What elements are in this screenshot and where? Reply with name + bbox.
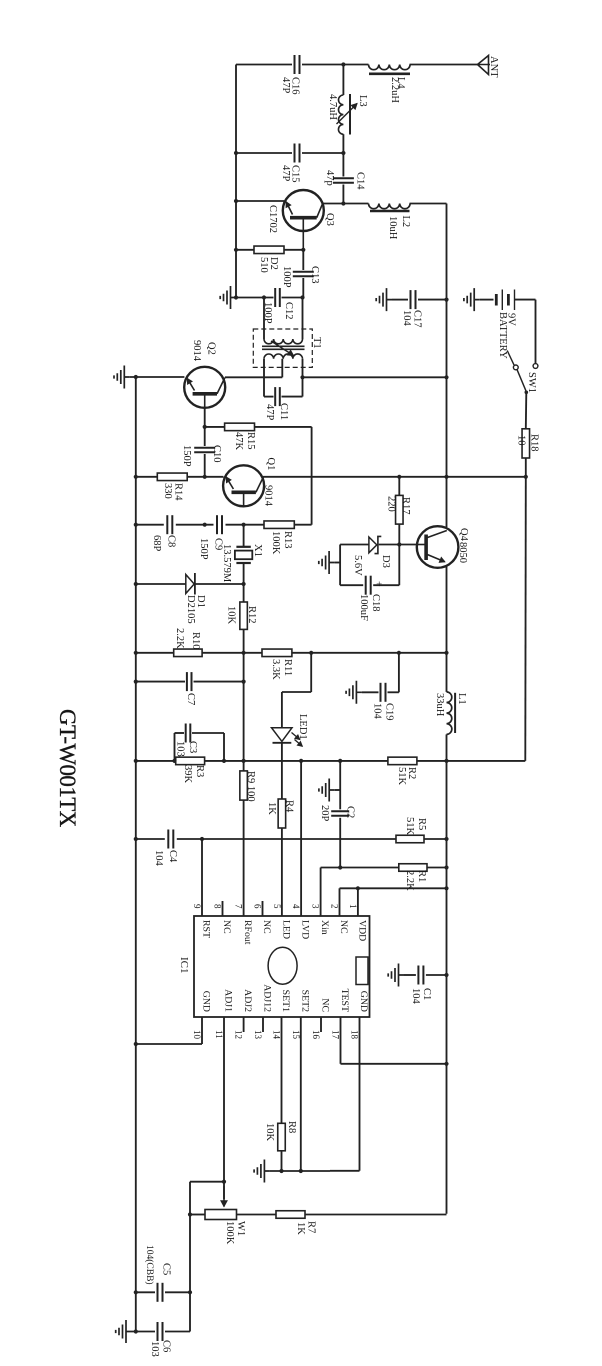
svg-text:C10: C10 — [211, 445, 222, 463]
resistor R18 (10) — [522, 429, 530, 458]
svg-text:C18: C18 — [370, 594, 381, 612]
capacitor C17 (104) — [392, 299, 408, 301]
node: supply/R17 — [397, 475, 401, 479]
node: row/left rail — [134, 759, 138, 763]
svg-text:SET1: SET1 — [280, 990, 291, 1012]
ground (R8/SET row) — [254, 1160, 270, 1183]
node: row/spine — [444, 759, 448, 763]
potentiometer W1 (100K) — [205, 1210, 237, 1220]
resistor R3 (39K) — [176, 757, 205, 765]
svg-text:10: 10 — [192, 1030, 202, 1040]
svg-text:220: 220 — [386, 496, 397, 512]
svg-text:8050: 8050 — [457, 542, 468, 563]
svg-text:R5: R5 — [416, 818, 427, 830]
inductor L2 — [369, 204, 411, 209]
pin 18 GND wire — [359, 1017, 361, 1171]
node: L3 top junction — [341, 62, 345, 66]
node: left vertical / C15 row — [234, 151, 238, 155]
svg-text:10K: 10K — [226, 606, 237, 625]
capacitor C18 (electrolytic 100uF) — [340, 584, 363, 586]
svg-text:RFout: RFout — [242, 920, 253, 945]
node: row/pin15 — [299, 1169, 303, 1173]
pin 10 GND wire to left rail — [201, 1017, 203, 1044]
svg-text:9: 9 — [192, 904, 202, 909]
svg-text:18: 18 — [350, 1030, 360, 1040]
svg-text:5.6V: 5.6V — [352, 555, 363, 576]
svg-text:+: + — [373, 581, 384, 587]
capacitor C11 — [264, 396, 274, 398]
svg-text:Q3: Q3 — [324, 213, 335, 226]
node: row/left rail — [134, 837, 138, 841]
svg-text:10: 10 — [516, 435, 527, 446]
wire C12 row y=297.5 — [236, 297, 274, 299]
wire W1 jog (wiper tie) — [190, 1181, 224, 1183]
svg-text:R7: R7 — [306, 1221, 317, 1233]
wire C8/C9 row y=524.7 — [136, 524, 164, 526]
inductor L3 (adjustable) — [342, 65, 344, 96]
node: T1 primary right / C13 bottom — [300, 295, 304, 299]
resistor R4 (1K) — [278, 799, 286, 828]
svg-text:TEST: TEST — [339, 989, 350, 1012]
transistor Q4 (8050) — [417, 526, 459, 568]
resistor R14 (330) — [157, 473, 187, 481]
node: supply/R18 — [524, 475, 528, 479]
node: row/spine — [444, 651, 448, 655]
svg-text:47P: 47P — [280, 77, 291, 94]
svg-text:13: 13 — [253, 1030, 263, 1040]
svg-text:C4: C4 — [167, 850, 178, 863]
capacitor C9 (150P) — [216, 515, 218, 534]
node: supply/spine — [444, 475, 448, 479]
svg-text:4.7uH: 4.7uH — [327, 94, 338, 120]
svg-text:9014: 9014 — [191, 340, 202, 362]
svg-text:C1: C1 — [421, 988, 432, 1000]
svg-text:LED1: LED1 — [297, 714, 308, 740]
svg-text:33uH: 33uH — [434, 693, 445, 717]
wire T1 secondary right to spine — [303, 376, 447, 378]
node: VDD row/spine — [444, 886, 448, 890]
svg-text:C11: C11 — [278, 403, 289, 420]
node: row/left rail — [134, 523, 138, 527]
svg-text:R3: R3 — [194, 765, 205, 777]
wire L2 to spine corner — [410, 203, 447, 205]
node: left vertical / D2 row — [234, 248, 238, 252]
wire T1 tap to Q2 collector y=377.3 — [225, 376, 282, 378]
wire R10/R11 row y=652.8 — [136, 652, 174, 654]
svg-text:SET2: SET2 — [299, 990, 310, 1012]
node: supply/Q2 base column — [203, 475, 207, 479]
node: TEST/spine — [444, 1062, 448, 1066]
svg-text:15: 15 — [291, 1030, 301, 1040]
svg-text:100K: 100K — [224, 1221, 235, 1245]
svg-text:8: 8 — [213, 904, 223, 909]
pin 9 wire RST — [201, 839, 203, 916]
T1 secondary winding — [264, 354, 303, 359]
svg-text:C14: C14 — [355, 172, 366, 190]
svg-text:1K: 1K — [295, 1222, 306, 1235]
wire C2 branch vertical — [339, 761, 341, 809]
battery ground — [464, 288, 480, 311]
node: C1/spine — [444, 973, 448, 977]
node: row/pin4 branch — [299, 759, 303, 763]
svg-text:68P: 68P — [151, 535, 162, 552]
svg-text:X1: X1 — [252, 544, 263, 557]
svg-text:10uH: 10uH — [387, 216, 398, 240]
svg-text:R17: R17 — [400, 497, 411, 515]
wire Xin row y=867.5 — [321, 867, 399, 869]
crystal X1 (13.579M) — [243, 525, 245, 547]
svg-text:47P: 47P — [280, 165, 291, 182]
ground (C17) — [376, 288, 392, 311]
svg-text:NC: NC — [338, 920, 349, 934]
svg-text:47K: 47K — [233, 432, 244, 451]
node: R15 / Q2 base column — [203, 425, 207, 429]
svg-text:103: 103 — [175, 741, 186, 757]
svg-text:C13: C13 — [309, 266, 320, 284]
T1 primary winding — [263, 298, 265, 340]
capacitor C10 — [204, 408, 206, 446]
node: T1 wire/spine — [444, 375, 448, 379]
svg-text:NC: NC — [261, 920, 272, 934]
wire W1 wiper from pin11 (arrow) — [223, 1186, 225, 1207]
node: left vertical / emitter row — [234, 199, 238, 203]
svg-text:VDD: VDD — [356, 920, 367, 941]
svg-text:14: 14 — [272, 1030, 282, 1040]
svg-text:L1: L1 — [456, 693, 467, 705]
capacitor C7 — [186, 672, 188, 691]
wire battery row — [480, 299, 494, 301]
svg-text:LVD: LVD — [300, 920, 311, 939]
ground (C1) — [388, 964, 404, 987]
resistor R11 (3.3K) — [262, 649, 292, 657]
capacitor C3 (103) across R3 — [174, 733, 176, 761]
node: Xin/C2 — [338, 865, 342, 869]
battery 9V (plates) — [495, 294, 498, 306]
transformer T1 (dashed box) — [253, 329, 312, 367]
svg-text:47p: 47p — [324, 170, 335, 186]
zener D3 (5.6V) — [369, 537, 377, 553]
node: C14 bottom junction — [341, 201, 345, 205]
svg-text:11: 11 — [214, 1030, 224, 1039]
IC1 notch rectangle — [356, 957, 368, 985]
spine vertical x=446.5 (L1 bottom to R7 row) — [446, 761, 448, 1214]
svg-text:47P: 47P — [264, 404, 275, 421]
pin 14 SET1 wire + resistor R8 (10K) — [281, 1017, 283, 1123]
svg-text:R15: R15 — [245, 432, 256, 450]
ground (bottom left) — [116, 1320, 132, 1343]
svg-text:39K: 39K — [182, 765, 193, 784]
node: Q3 base / D2 junction — [301, 248, 305, 252]
resistor R2 (51K) — [388, 757, 417, 765]
svg-text:150P: 150P — [198, 538, 209, 560]
svg-text:1K: 1K — [266, 802, 277, 815]
resistor R1 (2.2K) — [399, 864, 427, 872]
svg-text:104: 104 — [410, 988, 421, 1005]
svg-text:20P: 20P — [319, 805, 330, 822]
svg-text:10K: 10K — [264, 1123, 275, 1142]
svg-text:R1: R1 — [416, 870, 427, 882]
IC1 box — [194, 916, 370, 1017]
svg-text:C2: C2 — [345, 806, 356, 818]
wire LED to R4 — [281, 743, 283, 799]
svg-text:104: 104 — [372, 703, 383, 720]
svg-text:100uF: 100uF — [358, 594, 369, 621]
svg-text:104: 104 — [401, 310, 412, 327]
ground (C19) — [346, 681, 362, 704]
wire Q3 emitter y=201 — [236, 200, 284, 202]
svg-text:104(CBB): 104(CBB) — [144, 1245, 155, 1285]
node: C17/spine — [444, 298, 448, 302]
transistor Q3 (C1702) — [283, 190, 324, 231]
ground (D3/C18) — [319, 551, 335, 574]
node: Xin row/spine — [444, 865, 448, 869]
inductor L1 (33uH) — [446, 653, 448, 692]
svg-text:4: 4 — [291, 904, 301, 909]
wire supply row y=476.8 — [136, 476, 158, 478]
svg-text:R14: R14 — [173, 483, 184, 501]
svg-text:C5: C5 — [161, 1263, 172, 1275]
LED1 — [272, 728, 293, 742]
inductor L4 — [369, 65, 411, 70]
node: row/pin9 RST — [200, 837, 204, 841]
antenna ANT — [478, 56, 491, 75]
switch SW1 — [533, 364, 538, 369]
svg-text:R10: R10 — [190, 632, 201, 650]
ground (C12 row) — [220, 286, 236, 309]
svg-text:6: 6 — [253, 904, 263, 909]
capacitor C16 — [294, 55, 296, 74]
svg-text:NC: NC — [221, 920, 232, 934]
capacitor C14 — [342, 153, 344, 177]
svg-text:R4: R4 — [284, 800, 295, 813]
svg-text:ADJ1: ADJ1 — [223, 989, 234, 1012]
diode D1 (D2105) — [136, 583, 186, 585]
svg-text:C7: C7 — [185, 693, 196, 705]
node: row/left rail — [134, 651, 138, 655]
node: left rail / emitter row — [134, 375, 138, 379]
capacitor C1 (104) — [404, 974, 416, 976]
svg-text:BATTERY: BATTERY — [497, 312, 508, 359]
ground (C2 branch) — [319, 779, 335, 802]
node: row/R9 column — [242, 759, 246, 763]
resistor R5 (51K) — [396, 835, 424, 843]
svg-text:ADJ2: ADJ2 — [242, 989, 253, 1012]
svg-text:ANT: ANT — [488, 56, 499, 78]
svg-text:RST: RST — [201, 920, 212, 938]
capacitor C5 (104CBB) — [157, 1283, 159, 1302]
resistor R9 (100) — [243, 761, 245, 771]
svg-text:Q2: Q2 — [206, 342, 217, 355]
capacitor C19 (104) — [362, 691, 379, 693]
wire D3 left vertical — [339, 545, 341, 586]
node: row/C19 branch — [397, 651, 401, 655]
svg-text:100P: 100P — [281, 266, 292, 288]
wire Q4 emitter — [446, 567, 448, 653]
svg-text:Xin: Xin — [319, 920, 330, 935]
wire Q3 collector to L2 — [322, 203, 368, 205]
svg-text:16: 16 — [311, 1030, 321, 1040]
right rail (R18 junction down to ground row) — [524, 477, 527, 761]
svg-text:2.2K: 2.2K — [174, 628, 185, 649]
node: D1 row/left rail — [134, 582, 138, 586]
spine vertical x=446.5 (C17 row to supply row) — [446, 300, 448, 477]
IC1 dimple — [268, 947, 297, 984]
node: supply/left rail — [134, 475, 138, 479]
svg-text:GND: GND — [201, 991, 212, 1012]
wire battery to SW1 — [535, 300, 537, 364]
capacitor C2 (20P) — [331, 810, 349, 812]
svg-text:R8: R8 — [286, 1121, 297, 1133]
pin 15 SET2 wire — [300, 1017, 302, 1171]
svg-text:2: 2 — [330, 904, 340, 909]
capacitor C12 — [274, 288, 276, 307]
wire Q4 base row y=544.5 — [340, 544, 369, 546]
IC1 pin stubs bottom (12,13,16 NC) — [243, 1017, 245, 1032]
node: base/R17 — [397, 542, 401, 546]
svg-text:R9 100: R9 100 — [245, 771, 256, 802]
svg-text:NC: NC — [320, 998, 331, 1012]
wire ANT feed (top rail y=64.5) — [236, 64, 292, 66]
svg-text:C3: C3 — [187, 741, 198, 753]
svg-text:R18: R18 — [529, 434, 540, 452]
capacitor C8 (68P) — [166, 515, 168, 534]
svg-text:GT-W001TX: GT-W001TX — [55, 709, 80, 828]
svg-text:C1702: C1702 — [267, 205, 278, 233]
node: row/Q1 base — [242, 523, 246, 527]
IC1 pin stubs top (8,6 NC) — [222, 901, 224, 916]
left rail top vertical x=236 — [235, 65, 237, 298]
wire pin4 branch (LVD) — [300, 761, 302, 916]
node: row/C2-gnd branch — [338, 759, 342, 763]
transistor Q1 (9014) — [223, 465, 264, 506]
svg-text:SW1: SW1 — [526, 372, 537, 393]
T1 adjust arrow — [271, 341, 294, 356]
T1 core — [262, 345, 305, 347]
node: row/R8 — [279, 1169, 283, 1173]
transistor Q2 (9014) — [184, 367, 225, 408]
resistor R15 (47K) — [205, 426, 225, 428]
wire C18 right vertical — [398, 545, 400, 586]
svg-text:12: 12 — [234, 1030, 244, 1039]
capacitor C15 — [294, 144, 296, 163]
pin 11 ADJ1 wire to W1 wiper — [223, 1017, 225, 1199]
svg-text:1: 1 — [348, 904, 358, 909]
wire R15/R13 vertical x=311.6 — [311, 427, 313, 525]
svg-text:R11: R11 — [282, 659, 293, 676]
node: row/R12 bottom — [242, 651, 246, 655]
capacitor C13 — [302, 250, 304, 270]
svg-text:W1: W1 — [235, 1221, 246, 1236]
node: D1/X1/R12 — [242, 582, 246, 586]
svg-text:R12: R12 — [246, 606, 257, 624]
svg-text:C8: C8 — [166, 535, 177, 547]
resistor R12 (10K) — [243, 584, 245, 602]
wire LED branch jog — [310, 653, 312, 692]
capacitor C6 (103) — [157, 1322, 159, 1341]
node: row/Q2 base column — [203, 523, 207, 527]
svg-text:7: 7 — [234, 904, 244, 909]
svg-text:51K: 51K — [404, 817, 415, 836]
resistor R10 (2.2K) — [174, 649, 202, 657]
node: row/LED branch — [309, 651, 313, 655]
wire R4 to IC pin 5 (LED) — [281, 828, 283, 916]
svg-text:150P: 150P — [181, 445, 192, 467]
svg-text:330: 330 — [162, 483, 173, 499]
node: row/spine — [444, 837, 448, 841]
svg-text:3: 3 — [311, 904, 321, 909]
wire Q1-base column through C7 row — [243, 653, 245, 682]
svg-text:2.2uH: 2.2uH — [389, 77, 400, 103]
svg-text:5: 5 — [272, 904, 282, 909]
svg-text:13.579M: 13.579M — [221, 544, 232, 583]
svg-text:103: 103 — [149, 1341, 160, 1357]
svg-text:R13: R13 — [282, 531, 293, 549]
svg-text:Q1: Q1 — [265, 458, 276, 471]
resistor R7 (1K) — [276, 1211, 305, 1219]
wire VDD row y=888.3 — [340, 887, 447, 889]
wire C6 row y=1331.5 — [132, 1331, 156, 1333]
svg-text:L2: L2 — [400, 216, 411, 228]
pin 17 TEST wire to spine — [340, 1017, 342, 1064]
wire Q4 collector — [446, 477, 448, 527]
svg-text:Q4: Q4 — [458, 528, 469, 542]
svg-text:C6: C6 — [161, 1340, 172, 1352]
svg-text:IC1: IC1 — [178, 957, 190, 974]
svg-text:510: 510 — [258, 257, 269, 273]
wire SW1 to R18 — [525, 392, 528, 429]
wire ground row y=760.9 — [136, 760, 176, 762]
svg-text:L3: L3 — [357, 95, 368, 107]
svg-text:LED: LED — [280, 920, 291, 939]
svg-text:C17: C17 — [412, 310, 423, 328]
ground (Q2 emitter) — [114, 366, 130, 389]
svg-text:D3: D3 — [380, 555, 391, 568]
wire C4/R5 row y=839 — [136, 838, 165, 840]
capacitor C4 (104) — [167, 830, 169, 849]
wire Q2 emitter row — [130, 376, 185, 378]
node: secondary right / C11 — [300, 375, 304, 379]
svg-text:100K: 100K — [270, 531, 281, 555]
wire pin1 VDD stub — [357, 888, 359, 916]
svg-text:9014: 9014 — [263, 485, 274, 507]
wire left vert x=190 to C6 row — [189, 1292, 191, 1331]
left rail x=135.8 — [135, 377, 137, 1332]
resistor R13 (100K) — [244, 524, 264, 526]
resistor D2 (510) — [236, 249, 254, 251]
svg-text:17: 17 — [331, 1030, 341, 1040]
wire C15 row y=153 — [236, 152, 292, 154]
resistor R17 (220) — [398, 477, 400, 496]
svg-text:T1: T1 — [311, 337, 322, 349]
svg-text:3.3K: 3.3K — [270, 659, 281, 680]
wire C5 row y=1292.3 — [136, 1291, 155, 1293]
svg-text:C19: C19 — [384, 703, 395, 721]
svg-text:51K: 51K — [396, 767, 407, 786]
svg-text:C12: C12 — [283, 302, 294, 320]
wire ground row y=1171 — [270, 1170, 330, 1172]
svg-text:D2105: D2105 — [185, 595, 196, 624]
wire C7 row y=681.6 — [136, 681, 185, 683]
svg-text:GND: GND — [358, 991, 369, 1012]
svg-text:104: 104 — [153, 850, 164, 867]
node: T1 primary left — [262, 295, 266, 299]
svg-text:ADJ12: ADJ12 — [262, 984, 273, 1012]
node: C14 top junction — [341, 151, 345, 155]
wire R9 to IC pin 7 (RFout) — [243, 800, 245, 916]
